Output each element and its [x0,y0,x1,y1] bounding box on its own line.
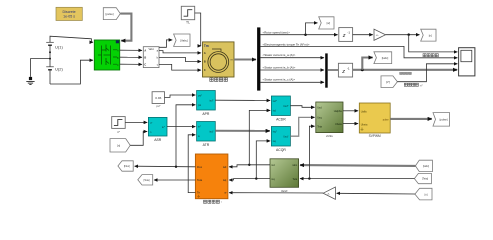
svg-text:[Vabc]: [Vabc] [180,38,188,42]
node on isd wire [248,164,250,166]
wire converter A to measure A [120,49,142,51]
svg-text:Flux: Flux [197,165,203,169]
svg-text:3s/2r: 3s/2r [281,189,288,193]
svg-text:C: C [204,69,206,72]
svg-text:te*: te* [162,126,165,129]
wire ASR to ATR [167,126,195,128]
wire flux output to goto Flux [135,165,196,168]
svg-text:TL: TL [186,20,190,24]
svg-text:isd: isd [223,165,227,169]
svg-text:<Stator current is_c (A)>: <Stator current is_c (A)> [263,78,296,82]
wire from n to ASR input2 [130,132,147,146]
asynchronous machine block [203,42,235,77]
svg-text:[Flux]: [Flux] [124,165,130,168]
scope block [459,48,475,76]
wire Teta from tag to 3s2r [300,178,414,180]
svg-text:C: C [117,64,119,67]
svg-text:SVPWM: SVPWM [369,134,381,138]
DC source U(2) [46,59,63,84]
svg-text:ATR: ATR [203,143,210,147]
wire Teta output to goto Teta [154,179,195,181]
flux observer block (CJK) [195,154,228,199]
Goto tag [n] [421,29,436,41]
svg-text:Usq: Usq [317,117,322,120]
Goto tag [w] [319,17,334,29]
svg-text:z: z [342,33,346,39]
svg-text:2r/2s: 2r/2s [326,134,333,138]
mux bar [325,53,328,87]
svg-text:B: B [204,61,206,64]
wire 2r2s Ubeta to SVPWM [343,123,358,125]
3s/2r transform block [270,159,299,193]
node junction between sources [49,58,51,60]
svg-text:te*: te* [198,125,201,128]
svg-text:A: A [144,50,146,53]
label three-phase current (CJK) [400,72,411,74]
svg-text:[Teta]: [Teta] [422,178,428,181]
wire z1 to gain [353,34,373,36]
svg-text:psi: psi [198,104,202,107]
svg-text:0.96: 0.96 [155,96,161,100]
svg-text:isd*: isd* [209,99,213,102]
Goto tag [Teta] flipped [138,175,153,185]
From tag [n] flipped bottom [415,188,432,200]
svg-text:psi*: psi* [156,104,160,108]
ACDR block [271,96,290,121]
svg-text:[n]: [n] [425,193,428,196]
wire stator current is_c [260,81,324,83]
svg-text:APR: APR [202,112,210,116]
svg-text:Ualfa: Ualfa [361,110,367,113]
wire ground to source midpoint [31,59,51,77]
wire 3s2r isd to flux observer [229,165,270,167]
svg-text:Usd: Usd [317,106,322,109]
svg-text:Usq*: Usq* [283,135,288,138]
svg-text:<Stator current is_a (A)>: <Stator current is_a (A)> [263,53,296,57]
svg-text:isq*: isq* [209,130,213,133]
wire teta branch to 2r2s input3 [309,126,314,178]
From tag [Teta] flipped [414,173,431,183]
wire stator current is_b [260,69,324,71]
svg-text:<Electromagnetic torque Te (N*: <Electromagnetic torque Te (N*m)> [263,42,310,46]
wire ACQR to 2r2s input2 [290,117,314,136]
wire pulse tag to converter g port [120,14,131,41]
ACQR block [271,127,290,152]
svg-text:Ualpha: Ualpha [334,110,343,113]
wire step to ASR input1 [125,121,147,123]
wire rotor speed [260,34,337,36]
svg-text:Te: Te [197,191,200,195]
wire branch to goto Iabc [362,58,372,70]
svg-text:-1: -1 [347,31,350,35]
label flux observer (CJK) [204,200,222,204]
node on speed wire [304,33,307,36]
node after gain [407,33,410,36]
Goto tag [pulse] [433,113,450,127]
wire iabc thick to scope input4 [353,69,458,71]
wire ACDR to 2r2s input1 [290,106,314,108]
wire measure c to motor C [159,64,201,70]
wire measure b to motor B [159,57,201,61]
wire n from tag to gain2 [337,192,415,195]
svg-text:pulse: pulse [383,119,390,122]
svg-text:C: C [144,64,146,67]
node on teta wire [308,177,310,179]
unit delay z1 [339,28,353,42]
From tag [n] left [110,139,130,152]
wire converter C to measure C [120,63,142,65]
wire ATR to ACQR [215,130,269,132]
svg-text:n*: n* [150,122,152,125]
DC source U(1) [46,38,63,59]
wire 3s2r isq to flux observer [229,179,270,180]
svg-text:m: m [231,59,233,62]
svg-text:isq*: isq* [273,130,277,133]
wire electromagnetic torque to scope [260,46,457,57]
gain block speed conversion flipped [323,187,335,199]
wire APR to ACDR [215,99,270,101]
gain block rpm [374,29,386,40]
wire isq feedback to ACQR input2 [256,141,270,179]
wire flux feedback to APR input2 [176,105,195,167]
wire gain2 to flux observer w input [229,192,323,194]
node on iabc wire [361,68,364,71]
Goto tag [Iabc] [374,52,392,64]
svg-text:Vabc: Vabc [148,48,154,51]
svg-text:-1: -1 [347,67,350,71]
ground [26,77,34,85]
node on isq wire [255,177,257,179]
From tag [pulse] top-left [103,8,120,20]
svg-text:[n]: [n] [429,33,432,37]
svg-text:B: B [144,57,146,60]
SVPWM block [359,103,390,138]
svg-text:Discrete: Discrete [63,10,76,14]
powergui block Discrete 1e-05 s [56,7,82,20]
svg-text:[pulse]: [pulse] [106,12,114,16]
wire 2r2s Ualpha to SVPWM [343,110,358,112]
wire Te output to ATR input2 [188,135,195,193]
svg-text:z: z [341,69,345,75]
svg-text:[Iabc]: [Iabc] [382,56,389,60]
svg-text:1e-05 s: 1e-05 s [63,15,75,19]
wire source bottom to converter - input [50,60,93,84]
svg-text:ACQR: ACQR [276,148,286,152]
wire motor m to bus selector [234,58,256,60]
wire gain to goto n [386,34,420,36]
wire n* reference to scope input3 [397,64,457,82]
label motor speed (CJK) [423,54,438,57]
svg-text:[n]: [n] [117,143,120,147]
svg-text:Tm: Tm [204,44,209,48]
wire branch to goto w [306,23,318,35]
Goto tag [Flux] flipped [118,161,133,171]
svg-text:<Stator current is_b (A)>: <Stator current is_b (A)> [263,65,296,69]
svg-text:ACDR: ACDR [276,117,286,121]
svg-text:[n*]: [n*] [386,80,390,84]
svg-text:iabc: iabc [293,164,298,167]
Goto tag [Vabc] [174,34,190,46]
svg-text:U(2): U(2) [55,67,63,72]
wire mux to unit delay z2 [328,69,339,71]
wire measure Vabc output to goto tag [159,40,172,47]
svg-text:isq: isq [223,178,227,182]
svg-text:Ubeta: Ubeta [361,123,368,126]
wire converter B to measure B [120,56,142,58]
wire TL to motor Tm [195,13,201,46]
step block n* [112,117,126,135]
wire SVPWM pulse to goto [390,118,432,120]
label reference speed (CJK) [404,83,423,87]
svg-text:-K-: -K- [327,193,330,195]
wire Iabc from tag to 3s2r [300,164,415,167]
svg-text:w: w [224,192,226,195]
step block TL [181,6,194,24]
svg-text:U(1): U(1) [55,44,63,49]
wire source top to converter + input [50,36,93,42]
wire speed branch to scope input1 [409,35,458,52]
ATR block [197,122,216,147]
APR block [197,91,216,116]
svg-text:Usd*: Usd* [283,105,288,108]
svg-text:A: A [204,52,206,55]
From tag [Iabc] flipped [415,160,432,171]
wire measure a to motor A [159,51,201,53]
label motor (CJK) [210,78,228,82]
node on flux wire [175,166,177,168]
svg-text:isd*: isd* [273,100,277,103]
unit delay z2 [338,63,352,77]
wire stator current is_a [260,57,324,59]
svg-text:ASR: ASR [154,138,162,142]
svg-text:psi*: psi* [198,94,202,97]
svg-text:-K-: -K- [376,35,379,37]
svg-text:[Iabc]: [Iabc] [423,165,429,168]
constant psi* 0.96 [152,92,164,108]
svg-text:Ubeta: Ubeta [335,123,342,126]
svg-text:[pulse]: [pulse] [440,118,448,122]
svg-text:[w]: [w] [327,21,331,25]
svg-text:<Rotor speed (wm)>: <Rotor speed (wm)> [263,31,291,35]
converter bridge block (IGBT inverter) [94,40,119,70]
From tag [n*] [381,76,397,88]
svg-text:Teta: Teta [292,178,297,181]
wire constant to APR [165,95,196,97]
bus selector bar [257,27,260,90]
2r/2s transform block [316,102,343,138]
svg-text:Teta: Teta [317,125,322,128]
wire isd feedback to ACDR input2 [249,110,270,164]
svg-text:*: * [221,200,222,204]
three-phase V-I measurement block Vabc [143,47,159,68]
svg-text:[Teta]: [Teta] [144,179,150,182]
svg-text:Teta: Teta [197,178,203,182]
ASR block [148,117,167,142]
